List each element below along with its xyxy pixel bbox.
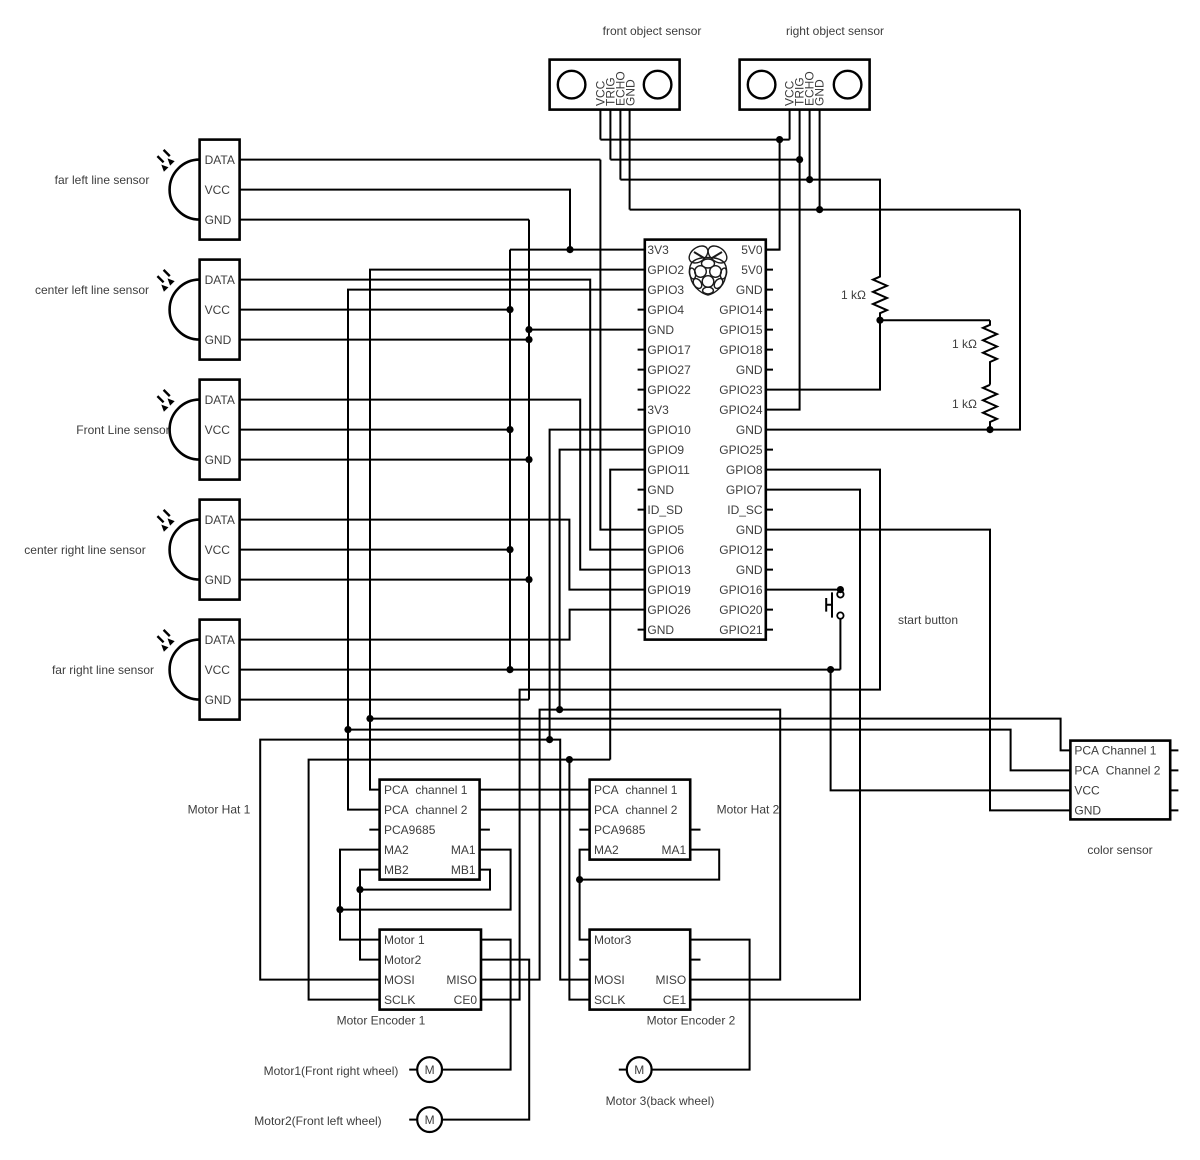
node S3 GND junction xyxy=(525,456,532,463)
wire encoder1 Motor2 to motor M2 xyxy=(442,960,529,1120)
wire net TRIG: right sensor TRIG pin drop continuing to GPIO24 xyxy=(766,110,800,410)
wire net 5V: front sensor VCC pin drop xyxy=(599,110,601,140)
wire net GND rail: S5 GND feed xyxy=(240,699,529,701)
motor encoder 1 U6 body xyxy=(380,930,481,1010)
node S1 VCC junction on 3V3 run xyxy=(566,246,573,253)
wire net 3V3: S5 VCC trunk to button and color sensor xyxy=(240,669,841,671)
svg-text:ID_SC: ID_SC xyxy=(727,503,763,517)
svg-text:GPIO26: GPIO26 xyxy=(647,603,691,617)
wire net ECHO: right sensor ECHO pin drop xyxy=(809,110,811,180)
wire net SCL: hat1 to hat2 PCA channel 2 link xyxy=(480,809,590,811)
node MISO trunk junction xyxy=(556,706,563,713)
wire net GND sensors: horizontal run to far right xyxy=(630,209,1020,211)
svg-text:GPIO25: GPIO25 xyxy=(719,443,763,457)
center left line sensor S2 xyxy=(157,260,239,360)
svg-text:M: M xyxy=(425,1113,435,1127)
wire net 5V: drop to raspberry pi 5V0 pin xyxy=(766,140,780,250)
svg-text:GND: GND xyxy=(1074,804,1101,818)
svg-text:1 kΩ: 1 kΩ xyxy=(841,288,866,302)
node VCC rail bottom junction xyxy=(506,666,513,673)
svg-text:GPIO15: GPIO15 xyxy=(719,323,763,337)
svg-text:3V3: 3V3 xyxy=(647,403,669,417)
svg-text:front object sensor: front object sensor xyxy=(603,24,702,38)
svg-text:MA1: MA1 xyxy=(662,843,687,857)
wire net MISO: pi GPIO9 run left and down xyxy=(560,450,645,710)
svg-text:GPIO5: GPIO5 xyxy=(647,523,684,537)
svg-text:far right line sensor: far right line sensor xyxy=(52,663,154,677)
svg-text:CE1: CE1 xyxy=(663,993,687,1007)
svg-text:1 kΩ: 1 kΩ xyxy=(952,337,977,351)
svg-text:Motor Hat 1: Motor Hat 1 xyxy=(188,803,251,817)
wire net 5V: horizontal run front VCC to right VCC xyxy=(600,139,789,141)
svg-text:VCC: VCC xyxy=(205,423,231,437)
svg-text:GPIO9: GPIO9 xyxy=(647,443,684,457)
wire net ECHO: front sensor ECHO pin drop xyxy=(619,110,621,180)
svg-text:CE0: CE0 xyxy=(454,993,478,1007)
motor M3 xyxy=(619,1057,652,1082)
start button SW1 xyxy=(826,591,843,619)
svg-text:GPIO4: GPIO4 xyxy=(647,303,684,317)
svg-text:center right line sensor: center right line sensor xyxy=(24,543,145,557)
wire net 3V3: pi 3V3 pin to VCC rail xyxy=(510,249,780,251)
raspberry pi U3 body xyxy=(645,240,766,640)
raspberry pi left pin labels xyxy=(647,243,691,637)
wire net SDA: pi GPIO2 run left and down xyxy=(370,270,645,790)
node S4 GND junction xyxy=(525,576,532,583)
svg-text:Motor2(Front left wheel): Motor2(Front left wheel) xyxy=(254,1114,381,1128)
svg-text:GPIO14: GPIO14 xyxy=(719,303,763,317)
wire encoder2 Motor3 to motor M3 xyxy=(652,940,750,1070)
svg-text:GPIO18: GPIO18 xyxy=(719,343,763,357)
svg-text:VCC: VCC xyxy=(1074,784,1100,798)
svg-text:VCC: VCC xyxy=(205,663,231,677)
resistor R1 1 kOhm xyxy=(873,180,887,321)
svg-text:VCC: VCC xyxy=(205,183,231,197)
wire hat1 MA2 feed xyxy=(340,850,380,940)
svg-text:M: M xyxy=(425,1063,435,1077)
svg-text:color sensor: color sensor xyxy=(1087,843,1152,857)
svg-text:PCA Channel 2: PCA Channel 2 xyxy=(1074,764,1160,778)
node S3 VCC junction xyxy=(506,426,513,433)
svg-text:PCA9685: PCA9685 xyxy=(384,823,436,837)
svg-text:GND: GND xyxy=(624,79,638,106)
node S4 VCC junction xyxy=(506,546,513,553)
svg-text:GND: GND xyxy=(813,79,827,106)
wire hat1 MB1 link xyxy=(360,870,490,890)
wire net MOSI: pi GPIO10 run left and down xyxy=(550,430,645,740)
motor encoder 2 U7 body xyxy=(590,930,691,1010)
svg-text:GPIO11: GPIO11 xyxy=(647,463,690,477)
wire net GND rail: pi GND pin xyxy=(529,329,645,331)
node color VCC branch junction xyxy=(827,666,834,673)
svg-text:GPIO6: GPIO6 xyxy=(647,543,684,557)
wire net 3V3: S2 VCC feed xyxy=(240,309,510,311)
wire net TRIG: horizontal run to right sensor TRIG xyxy=(610,159,799,161)
svg-text:MOSI: MOSI xyxy=(384,973,415,987)
svg-text:GPIO16: GPIO16 xyxy=(719,583,763,597)
svg-text:Motor 3(back wheel): Motor 3(back wheel) xyxy=(606,1094,715,1108)
svg-text:GPIO3: GPIO3 xyxy=(647,283,684,297)
svg-text:DATA: DATA xyxy=(205,153,235,167)
svg-text:SCLK: SCLK xyxy=(594,993,625,1007)
center right line sensor S4 xyxy=(157,500,239,600)
wire net MOSI: trunk to encoder 2 xyxy=(550,740,590,980)
motor hat 2 PCA9685 stubs xyxy=(579,829,700,831)
wire net GND rail: S2 GND feed xyxy=(240,339,529,341)
svg-text:DATA: DATA xyxy=(205,633,235,647)
svg-text:PCA channel 1: PCA channel 1 xyxy=(384,783,468,797)
svg-text:MA2: MA2 xyxy=(594,843,619,857)
node hat2 MA junction xyxy=(576,876,583,883)
wire net 3V3: S3 VCC feed xyxy=(240,429,510,431)
node 5V junction xyxy=(776,136,783,143)
svg-text:Motor1(Front right wheel): Motor1(Front right wheel) xyxy=(264,1064,399,1078)
svg-text:MA2: MA2 xyxy=(384,843,409,857)
svg-text:GPIO24: GPIO24 xyxy=(719,403,763,417)
wire net GND rail: S4 GND feed xyxy=(240,579,529,581)
wire S1 DATA to GPIO5 xyxy=(240,160,645,530)
motor M2 xyxy=(409,1107,442,1132)
wire S3 DATA to GPIO13 xyxy=(240,400,645,570)
wire net GND rail: S3 GND feed xyxy=(240,459,529,461)
raspberry pi logo xyxy=(686,243,730,295)
svg-text:GPIO7: GPIO7 xyxy=(726,483,763,497)
raspberry pi right pin labels xyxy=(719,243,763,637)
svg-text:GND: GND xyxy=(205,213,232,227)
wire S5 DATA to GPIO26 xyxy=(240,610,645,640)
wire net SCL: pi GPIO3 run left and down xyxy=(348,290,645,810)
node SCLK trunk junction xyxy=(566,756,573,763)
svg-text:MA1: MA1 xyxy=(451,843,476,857)
wire net SCLK: branch to encoder 2 SCLK xyxy=(569,760,589,1000)
svg-text:GND: GND xyxy=(205,693,232,707)
wire net SDA: trunk to color sensor PCA Channel 1 xyxy=(370,719,1070,751)
svg-text:GPIO27: GPIO27 xyxy=(647,363,691,377)
svg-text:GND: GND xyxy=(647,323,674,337)
wire net 3V3: color sensor VCC branch xyxy=(831,670,1071,791)
wire net GND sensors: right sensor GND pin drop xyxy=(819,110,821,210)
wire net ECHO/GPIO23: below resistor R1 to pi GPIO23 xyxy=(766,320,880,389)
svg-text:GPIO19: GPIO19 xyxy=(647,583,691,597)
wire net ECHO divider: R1 bottom to R2 top xyxy=(880,319,990,321)
svg-text:center left line sensor: center left line sensor xyxy=(35,283,149,297)
svg-text:MB2: MB2 xyxy=(384,863,409,877)
wire net 3V3: S4 VCC feed xyxy=(240,549,510,551)
svg-text:GPIO23: GPIO23 xyxy=(719,383,763,397)
svg-text:GND: GND xyxy=(736,423,763,437)
far left line sensor S1 xyxy=(157,140,239,240)
right object sensor left transducer circle xyxy=(748,71,776,99)
svg-text:right object sensor: right object sensor xyxy=(786,24,884,38)
motor hat 1 PCA9685 stubs xyxy=(369,829,490,831)
wire net GND sensors: front sensor GND pin drop xyxy=(629,110,631,210)
far right line sensor S5 xyxy=(157,620,239,720)
svg-text:M: M xyxy=(634,1063,644,1077)
node hat1 MA junction xyxy=(336,906,343,913)
wire net GND rail vertical xyxy=(528,220,530,700)
svg-text:5V0: 5V0 xyxy=(741,263,763,277)
svg-text:Motor 1: Motor 1 xyxy=(384,933,425,947)
wire net 3V3: VCC rail vertical xyxy=(509,250,511,670)
wire hat2 MA2 feed to Motor3 xyxy=(580,850,590,940)
wire net GND rail: S1 GND feed xyxy=(240,219,529,221)
node S2 GND junction xyxy=(525,336,532,343)
svg-text:MOSI: MOSI xyxy=(594,973,625,987)
svg-text:Motor2: Motor2 xyxy=(384,953,422,967)
resistor R2 1 kOhm xyxy=(983,320,997,385)
wire net SCL: trunk to color sensor PCA Channel 2 xyxy=(348,730,1070,771)
wire net CE0: pi GPIO8 to encoder 1 CE0 xyxy=(481,470,880,1000)
motor encoder 2 spare pin stubs xyxy=(579,959,700,961)
right object sensor U2 body xyxy=(740,60,870,110)
svg-text:Motor Encoder 2: Motor Encoder 2 xyxy=(647,1014,736,1028)
wire net SDA: hat1 to hat2 PCA channel 1 link xyxy=(480,789,590,791)
front object sensor pin labels VCC TRIG ECHO GND xyxy=(594,71,638,106)
Front Line sensor S3 xyxy=(157,380,239,480)
wire net MISO: trunk to encoder 2 MISO xyxy=(560,710,781,980)
svg-text:DATA: DATA xyxy=(205,393,235,407)
svg-text:GND: GND xyxy=(736,523,763,537)
svg-text:GND: GND xyxy=(647,483,674,497)
color sensor U8 body xyxy=(1070,741,1170,820)
svg-text:Motor Hat 2: Motor Hat 2 xyxy=(717,803,780,817)
svg-text:GND: GND xyxy=(736,283,763,297)
svg-text:PCA channel 2: PCA channel 2 xyxy=(594,803,678,817)
wire net GPIO16 to start button xyxy=(766,589,841,591)
svg-text:MB1: MB1 xyxy=(451,863,476,877)
node ECHO junction xyxy=(806,176,813,183)
node resistor junction R1-R2 xyxy=(876,317,883,324)
right object sensor right transducer circle xyxy=(834,71,862,99)
wire net 3V3: start button lower contact drop xyxy=(839,619,841,670)
node SCL trunk junction xyxy=(344,726,351,733)
svg-text:MISO: MISO xyxy=(446,973,477,987)
svg-text:PCA9685: PCA9685 xyxy=(594,823,646,837)
motor M1 xyxy=(409,1057,442,1082)
svg-text:GPIO21: GPIO21 xyxy=(719,623,763,637)
svg-text:DATA: DATA xyxy=(205,513,235,527)
node pi GND junction xyxy=(525,326,532,333)
wire net CE1: pi GPIO7 to encoder 2 CE1 xyxy=(690,490,860,1000)
svg-text:GPIO17: GPIO17 xyxy=(647,343,691,357)
wire net SCLK: trunk to encoder 1 SCLK xyxy=(309,760,611,1000)
resistor R3 1 kOhm xyxy=(983,385,997,430)
svg-text:MISO: MISO xyxy=(656,973,687,987)
svg-text:GPIO22: GPIO22 xyxy=(647,383,691,397)
front object sensor right transducer circle xyxy=(644,71,672,99)
svg-text:GPIO2: GPIO2 xyxy=(647,263,684,277)
wire S2 DATA to GPIO6 xyxy=(240,280,645,550)
svg-text:start button: start button xyxy=(898,613,958,627)
node GND resistor bottom junction xyxy=(986,426,993,433)
svg-text:GND: GND xyxy=(736,363,763,377)
svg-text:GND: GND xyxy=(205,453,232,467)
wire hat1 MA1 link xyxy=(340,850,511,910)
svg-text:Motor3: Motor3 xyxy=(594,933,632,947)
wire net MOSI: trunk to encoder 1 xyxy=(260,740,549,980)
wire encoder1 Motor 1 to motor M1 xyxy=(442,940,511,1070)
svg-text:GND: GND xyxy=(647,623,674,637)
wire hat1 MB2 feed xyxy=(360,870,380,960)
svg-text:GND: GND xyxy=(205,573,232,587)
svg-text:GPIO12: GPIO12 xyxy=(719,543,763,557)
node start button terminal xyxy=(837,586,844,593)
svg-text:3V3: 3V3 xyxy=(647,243,669,257)
color sensor right pin stubs xyxy=(1170,750,1178,810)
svg-text:Motor Encoder 1: Motor Encoder 1 xyxy=(337,1014,426,1028)
svg-text:GND: GND xyxy=(205,333,232,347)
svg-text:Front Line sensor: Front Line sensor xyxy=(76,423,169,437)
svg-text:GPIO20: GPIO20 xyxy=(719,603,763,617)
node TRIG junction xyxy=(796,156,803,163)
wire hat2 MA1 link xyxy=(580,850,720,880)
node S2 VCC junction xyxy=(506,306,513,313)
svg-text:PCA channel 1: PCA channel 1 xyxy=(594,783,678,797)
front object sensor left transducer circle xyxy=(558,71,586,99)
wire net MISO: trunk to encoder 1 MISO xyxy=(481,710,560,980)
svg-text:VCC: VCC xyxy=(205,543,231,557)
motor hat 2 PCA9685 U5 body xyxy=(590,780,691,860)
svg-text:PCA channel 2: PCA channel 2 xyxy=(384,803,468,817)
front object sensor U1 body xyxy=(550,60,680,110)
wire net 3V3: S1 VCC feed xyxy=(240,190,570,250)
line sensor boxes S1..S5 with arc and light arrows xyxy=(157,140,239,720)
svg-text:ID_SD: ID_SD xyxy=(647,503,683,517)
right object sensor pin labels VCC TRIG ECHO GND xyxy=(783,71,827,106)
node SDA trunk junction xyxy=(366,715,373,722)
svg-text:GND: GND xyxy=(736,563,763,577)
wire net ECHO: horizontal run to resistor R1 xyxy=(620,179,880,181)
wire net GND: right drop joining pi GND row xyxy=(766,210,1020,430)
svg-text:SCLK: SCLK xyxy=(384,993,415,1007)
svg-text:1 kΩ: 1 kΩ xyxy=(952,397,977,411)
wire net TRIG: front sensor TRIG pin drop xyxy=(609,110,611,160)
node GND sensors junction xyxy=(816,206,823,213)
svg-text:GPIO8: GPIO8 xyxy=(726,463,763,477)
svg-text:5V0: 5V0 xyxy=(741,243,763,257)
motor hat 1 PCA9685 U4 body xyxy=(380,780,480,880)
svg-text:VCC: VCC xyxy=(205,303,231,317)
svg-text:GPIO13: GPIO13 xyxy=(647,563,691,577)
svg-text:GPIO10: GPIO10 xyxy=(647,423,691,437)
wire S4 DATA to GPIO19 xyxy=(240,520,645,590)
wire net 5V: right sensor VCC pin drop xyxy=(789,110,791,140)
raspberry pi unused pin stubs xyxy=(638,270,773,630)
svg-text:far left line sensor: far left line sensor xyxy=(55,173,150,187)
wire net GND color: pi GND to color sensor GND xyxy=(766,530,1071,811)
node hat1 MB junction xyxy=(356,886,363,893)
wire net SCLK: pi GPIO11 run left and down xyxy=(610,470,645,760)
node MOSI trunk junction xyxy=(546,736,553,743)
svg-text:PCA Channel 1: PCA Channel 1 xyxy=(1074,744,1156,758)
svg-text:DATA: DATA xyxy=(205,273,235,287)
